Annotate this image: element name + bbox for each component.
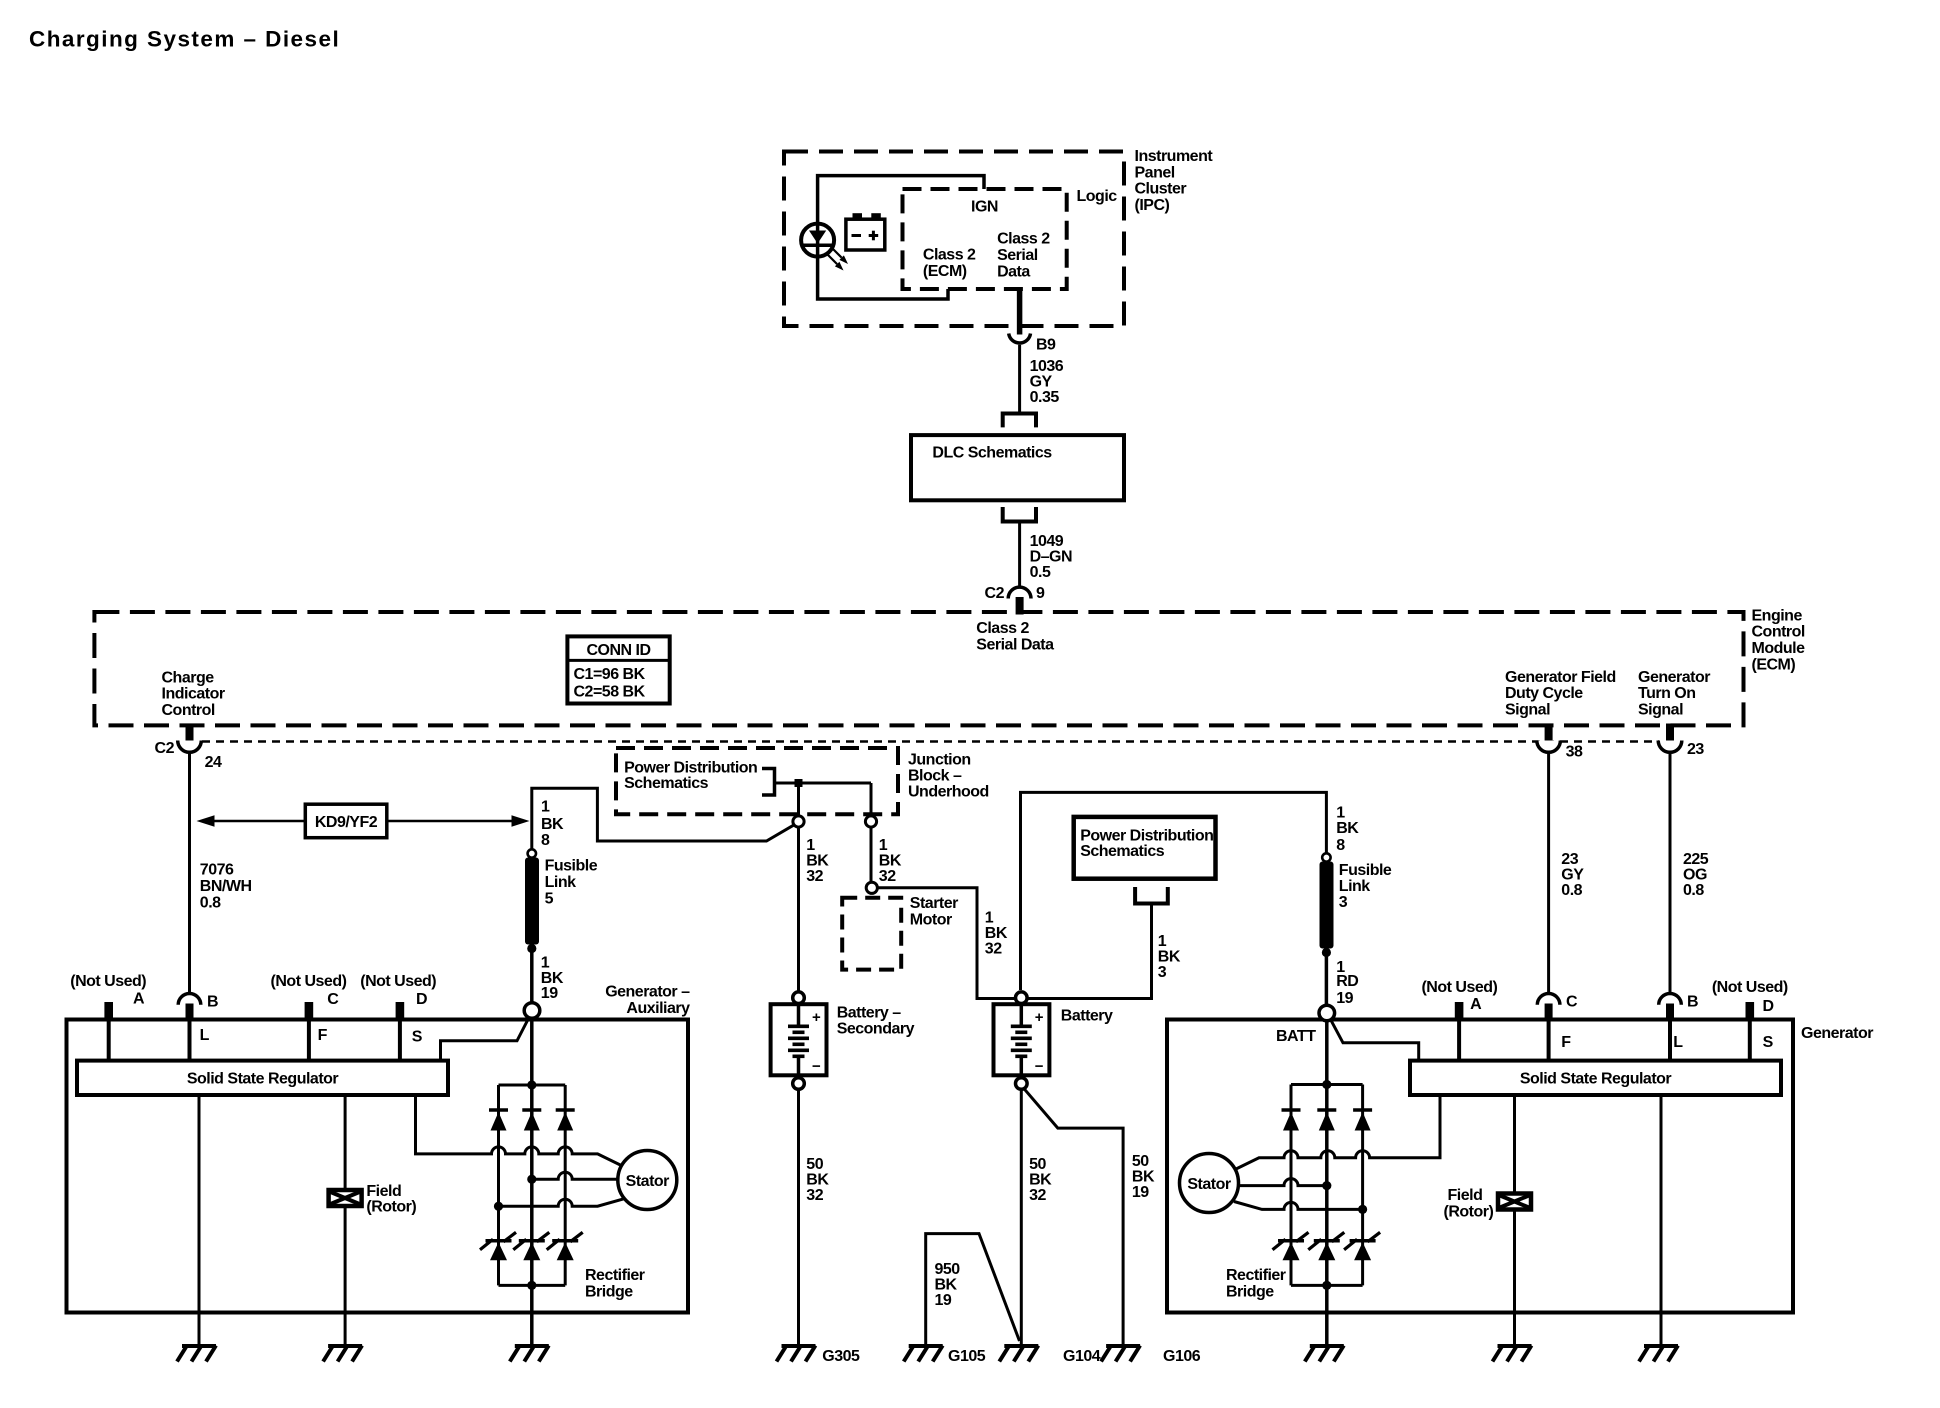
svg-text:F: F [318, 1027, 328, 1044]
connector B9 [1009, 334, 1056, 354]
svg-text:+: + [1035, 1009, 1044, 1026]
svg-text:19: 19 [1132, 1184, 1149, 1201]
svg-text:IGN: IGN [971, 199, 998, 216]
svg-text:Bridge: Bridge [1226, 1283, 1274, 1300]
svg-text:DLC Schematics: DLC Schematics [932, 445, 1052, 462]
pin C (not used) left gen [271, 973, 347, 1019]
svg-text:Logic: Logic [1077, 188, 1118, 205]
svg-text:G105: G105 [948, 1348, 986, 1365]
wire regulator L to ground [198, 1095, 201, 1346]
svg-text:3: 3 [1339, 894, 1348, 911]
IPC logic block [903, 188, 1118, 289]
svg-text:225: 225 [1683, 851, 1709, 868]
svg-text:Generator: Generator [1801, 1025, 1873, 1042]
wire regulator F to ground [1513, 1095, 1516, 1346]
fusible link 3 [1320, 853, 1392, 957]
svg-text:CONN ID: CONN ID [586, 642, 650, 659]
rectifier right column [564, 1085, 567, 1285]
svg-text:G104: G104 [1063, 1348, 1101, 1365]
svg-text:Underhood: Underhood [908, 784, 989, 801]
pin D (not used) left gen [360, 973, 436, 1019]
svg-text:Signal: Signal [1505, 702, 1550, 719]
svg-text:L: L [200, 1027, 210, 1044]
stator phase wire to regulator [416, 1095, 621, 1165]
wire terminal to regulator S [441, 1018, 530, 1061]
svg-text:BK: BK [985, 925, 1008, 942]
off-page bracket power distribution [1135, 887, 1168, 904]
svg-text:A: A [1470, 996, 1482, 1013]
svg-text:BK: BK [806, 852, 829, 869]
rectifier middle column left gen [530, 1018, 534, 1346]
svg-text:19: 19 [935, 1292, 952, 1309]
wire 50 BK 19 (battery to G106) [1024, 1088, 1155, 1344]
svg-text:BK: BK [879, 852, 902, 869]
pin A (not used) left gen [70, 973, 146, 1019]
svg-text:C2: C2 [155, 740, 175, 757]
svg-text:C2: C2 [985, 585, 1005, 602]
rectifier right column right gen [1361, 1085, 1364, 1286]
avalanche diode 6 [1344, 1232, 1380, 1260]
svg-text:1049: 1049 [1030, 533, 1064, 550]
ECM connector face dotted line [202, 740, 1659, 743]
pin wires to regulator left gen [107, 1020, 111, 1061]
svg-text:Charging System – Diesel: Charging System – Diesel [29, 27, 340, 52]
svg-text:OG: OG [1683, 866, 1707, 883]
svg-text:Auxiliary: Auxiliary [626, 1000, 690, 1017]
svg-text:(Rotor): (Rotor) [366, 1199, 416, 1216]
svg-text:1: 1 [806, 837, 815, 854]
connector C2 pin 24 [155, 724, 222, 771]
pin wires to regulator right gen [1457, 1020, 1461, 1061]
svg-text:C: C [1566, 994, 1578, 1011]
svg-text:A: A [133, 990, 145, 1007]
wire BATT to regulator [1331, 1020, 1419, 1061]
svg-text:Panel: Panel [1135, 164, 1175, 181]
rectifier left column [497, 1085, 500, 1285]
svg-text:BK: BK [1029, 1171, 1052, 1188]
svg-text:23: 23 [1561, 851, 1578, 868]
ground right gen F [1493, 1346, 1532, 1362]
svg-text:GY: GY [1561, 866, 1584, 883]
wire 950 BK 19 (G105 strap) [926, 1234, 1020, 1344]
svg-text:KD9/YF2: KD9/YF2 [315, 814, 378, 831]
connector C2 pin 38 [1537, 724, 1583, 761]
stator phase wire middle right [1238, 1179, 1327, 1186]
svg-text:Generator Field: Generator Field [1505, 669, 1616, 686]
rectifier top rail right gen [1291, 1083, 1363, 1086]
svg-text:BK: BK [541, 816, 564, 833]
junction dot [1322, 1181, 1331, 1190]
svg-text:Class 2: Class 2 [997, 231, 1050, 248]
generator auxiliary box [67, 984, 691, 1313]
svg-text:Cluster: Cluster [1135, 181, 1187, 198]
svg-text:Control: Control [162, 702, 215, 719]
junction dot [1358, 1205, 1367, 1214]
svg-text:D: D [416, 991, 427, 1008]
stator phase wire middle [532, 1172, 618, 1179]
battery - secondary [771, 1004, 915, 1075]
svg-text:Rectifier: Rectifier [1226, 1267, 1286, 1284]
charge indicator lamp (LED) [801, 224, 848, 271]
svg-text:(IPC): (IPC) [1135, 197, 1170, 214]
svg-text:Generator –: Generator – [605, 984, 690, 1001]
svg-text:(ECM): (ECM) [1752, 656, 1796, 673]
wire 1 BK 8 [532, 788, 795, 849]
off-page connector bracket top [1003, 414, 1036, 428]
wire 1 BK 19 [532, 949, 564, 1004]
ground left gen F [323, 1346, 362, 1362]
svg-text:Motor: Motor [910, 911, 952, 928]
node Generator Turn On Signal [1638, 669, 1710, 719]
wire 23 GY 0.8 [1549, 752, 1585, 992]
junction dot [1322, 1281, 1331, 1290]
svg-text:C1=96 BK: C1=96 BK [574, 666, 646, 683]
wire to battery secondary terminal [797, 783, 800, 816]
ground G104 [999, 1346, 1100, 1366]
svg-text:19: 19 [541, 985, 558, 1002]
svg-text:(Not Used): (Not Used) [1421, 979, 1497, 996]
svg-text:G106: G106 [1163, 1348, 1201, 1365]
svg-text:Data: Data [997, 263, 1030, 280]
wire 1 BK 8 (right) labels [1336, 804, 1359, 854]
pin A (not used) right gen [1421, 979, 1497, 1019]
svg-text:1: 1 [879, 837, 888, 854]
svg-text:Fusible: Fusible [1339, 862, 1392, 879]
svg-text:(Not Used): (Not Used) [1712, 979, 1788, 996]
svg-text:D: D [1762, 998, 1773, 1015]
ground G106 [1101, 1346, 1201, 1366]
junction dot [795, 779, 803, 787]
rectifier top rail left gen [499, 1084, 566, 1087]
svg-text:0.5: 0.5 [1030, 564, 1051, 581]
field rotor winding right [1444, 1187, 1532, 1220]
svg-text:32: 32 [806, 868, 823, 885]
svg-text:Link: Link [1339, 878, 1370, 895]
CONN ID table [567, 636, 669, 703]
off-page bracket junction block [762, 769, 775, 796]
avalanche diode 3 [547, 1232, 583, 1260]
ground right gen bridge [1305, 1346, 1344, 1362]
rectifier bottom rail right gen [1291, 1284, 1363, 1287]
battery [994, 1004, 1114, 1075]
wire regulator F to ground [344, 1095, 347, 1346]
svg-text:0.8: 0.8 [200, 895, 221, 912]
svg-text:Starter: Starter [910, 895, 958, 912]
svg-text:Serial Data: Serial Data [976, 637, 1054, 654]
svg-text:Indicator: Indicator [162, 686, 225, 703]
starter motor terminal ring [866, 882, 877, 893]
junction dot [527, 1281, 536, 1290]
diode 2 [522, 1110, 541, 1131]
wire class2 serial data stub [1017, 289, 1023, 335]
node Class 2 Serial Data [976, 620, 1054, 653]
svg-text:Engine: Engine [1752, 607, 1803, 624]
ground left gen bridge [510, 1346, 549, 1362]
svg-text:32: 32 [1029, 1187, 1046, 1204]
svg-text:3: 3 [1158, 964, 1167, 981]
BATT terminal ring [1319, 1005, 1335, 1021]
svg-text:24: 24 [205, 754, 222, 771]
svg-text:38: 38 [1566, 743, 1583, 760]
svg-text:−: − [1035, 1058, 1044, 1075]
wire 1 BK 3 [1028, 904, 1181, 999]
rectifier left column right gen [1290, 1085, 1293, 1286]
svg-text:0.8: 0.8 [1561, 882, 1582, 899]
svg-text:Power Distribution: Power Distribution [1080, 827, 1213, 844]
wire 1049 D-GN 0.5 [1020, 522, 1072, 587]
svg-text:BATT: BATT [1276, 1028, 1316, 1045]
svg-text:Junction: Junction [908, 751, 971, 768]
diode 5 [1317, 1110, 1336, 1131]
svg-text:Generator: Generator [1638, 669, 1710, 686]
svg-text:Charge: Charge [162, 669, 215, 686]
battery symbol (IPC) [846, 213, 885, 250]
svg-text:0.35: 0.35 [1030, 389, 1060, 406]
svg-text:Schematics: Schematics [1080, 843, 1165, 860]
svg-text:Stator: Stator [626, 1173, 670, 1190]
svg-text:C: C [327, 991, 339, 1008]
stator winding right gen [1180, 1154, 1239, 1213]
junction dot [1322, 1080, 1331, 1089]
wire to starter feed [870, 783, 873, 816]
svg-text:BN/WH: BN/WH [200, 878, 252, 895]
svg-text:C2=58 BK: C2=58 BK [574, 684, 646, 701]
svg-text:0.8: 0.8 [1683, 882, 1704, 899]
svg-text:50: 50 [806, 1156, 823, 1173]
wire lamp to logic [818, 254, 948, 299]
battery terminal ring bottom [1016, 1078, 1028, 1090]
svg-text:32: 32 [879, 868, 896, 885]
svg-text:(Not Used): (Not Used) [271, 973, 347, 990]
wire 1 RD 19 [1326, 953, 1358, 1007]
battery secondary terminal ring bottom [793, 1078, 805, 1090]
rectifier bottom rail left gen [499, 1284, 566, 1287]
svg-text:Class 2: Class 2 [976, 620, 1029, 637]
rectifier bridge label right [1226, 1267, 1286, 1300]
diode 6 [1353, 1110, 1372, 1131]
power distribution schematics box [1074, 817, 1216, 879]
svg-text:Serial: Serial [997, 247, 1038, 264]
svg-text:1: 1 [985, 910, 994, 927]
wire 1 BK 32 (starter to battery) [877, 888, 1014, 999]
svg-text:32: 32 [806, 1187, 823, 1204]
svg-text:+: + [812, 1009, 821, 1026]
svg-text:Rectifier: Rectifier [585, 1267, 645, 1284]
connector pin B right gen [1659, 993, 1698, 1019]
svg-text:S: S [412, 1028, 423, 1045]
wire 225 OG 0.8 [1670, 752, 1709, 992]
avalanche diode 4 [1273, 1232, 1309, 1260]
DLC Schematics box [911, 435, 1124, 500]
solid state regulator right [1410, 1061, 1781, 1095]
battery terminal ring top (junction) [1016, 992, 1028, 1004]
svg-text:BK: BK [1132, 1168, 1155, 1185]
svg-text:Solid State Regulator: Solid State Regulator [187, 1071, 339, 1088]
svg-text:Stator: Stator [1187, 1176, 1231, 1193]
svg-text:Signal: Signal [1638, 702, 1683, 719]
node Generator Field Duty Cycle Signal [1505, 669, 1616, 719]
avalanche diode 5 [1308, 1232, 1344, 1260]
wire 1036 GY 0.35 [1020, 345, 1064, 414]
svg-text:−: − [812, 1058, 821, 1075]
svg-text:7076: 7076 [200, 861, 234, 878]
svg-text:Secondary: Secondary [837, 1021, 915, 1038]
starter motor box [842, 895, 958, 970]
svg-text:BK: BK [806, 1171, 829, 1188]
svg-text:B: B [207, 994, 218, 1011]
stator phase wire to regulator right [1236, 1095, 1440, 1169]
off-page connector bracket bottom [1003, 507, 1036, 522]
svg-text:8: 8 [541, 832, 550, 849]
svg-text:1: 1 [541, 799, 550, 816]
field rotor winding left [329, 1183, 417, 1215]
wire 50 BK 32 (battery to G104) [1021, 1089, 1052, 1344]
junction dot [527, 1175, 536, 1184]
node Charge Indicator Control [162, 669, 225, 719]
wire 50 BK 32 (battery secondary to G305) [799, 1089, 830, 1344]
junction dot [527, 1080, 536, 1089]
generator box right [1167, 1020, 1873, 1313]
svg-text:50: 50 [1132, 1153, 1149, 1170]
svg-text:(ECM): (ECM) [923, 263, 967, 280]
instrument panel cluster IPC box [784, 148, 1213, 326]
svg-text:Battery: Battery [1061, 1007, 1113, 1024]
connector pin C right gen [1537, 993, 1578, 1019]
battery secondary terminal ring top [793, 992, 805, 1004]
diode 1 [489, 1110, 508, 1131]
svg-text:950: 950 [935, 1261, 961, 1278]
junction dot [494, 1202, 503, 1211]
svg-text:Schematics: Schematics [624, 775, 709, 792]
svg-text:D–GN: D–GN [1030, 548, 1072, 565]
ground G305 [777, 1346, 861, 1366]
svg-text:32: 32 [985, 941, 1002, 958]
svg-text:BK: BK [935, 1277, 958, 1294]
ground left gen L [177, 1346, 216, 1362]
stator phase wire bottom right [1234, 1202, 1363, 1210]
svg-text:Fusible: Fusible [545, 857, 598, 874]
svg-text:Field: Field [1448, 1187, 1483, 1204]
pin D (not used) right gen [1712, 979, 1788, 1019]
svg-text:Battery –: Battery – [837, 1004, 902, 1021]
svg-text:Solid State Regulator: Solid State Regulator [1520, 1071, 1672, 1088]
wire 7076 BN/WH 0.8 [190, 752, 252, 992]
svg-text:1036: 1036 [1030, 358, 1064, 375]
svg-text:BK: BK [1158, 948, 1181, 965]
svg-text:Control: Control [1752, 624, 1805, 641]
svg-text:F: F [1561, 1034, 1571, 1051]
engine control module ECM box [94, 607, 1805, 725]
svg-text:Instrument: Instrument [1135, 148, 1214, 165]
connector C2 pin 9 [985, 585, 1045, 614]
wire 1 BK 32 (to battery secondary) [799, 827, 830, 991]
wire regulator L to ground [1660, 1095, 1663, 1346]
svg-text:19: 19 [1336, 990, 1353, 1007]
svg-text:BK: BK [1336, 820, 1359, 837]
fusible link 5 [525, 849, 598, 953]
svg-text:(Not Used): (Not Used) [360, 973, 436, 990]
terminal ring 1 BK 19 [524, 1003, 540, 1019]
svg-text:1: 1 [1158, 933, 1167, 950]
svg-text:1: 1 [1336, 804, 1345, 821]
svg-text:Link: Link [545, 874, 576, 891]
svg-text:8: 8 [1336, 837, 1345, 854]
svg-text:B9: B9 [1036, 336, 1056, 353]
wire bracket to feed bus [775, 782, 872, 785]
svg-text:GY: GY [1030, 374, 1053, 391]
svg-text:Module: Module [1752, 640, 1806, 657]
svg-text:S: S [1763, 1034, 1774, 1051]
svg-text:5: 5 [545, 891, 554, 908]
svg-text:RD: RD [1336, 973, 1358, 990]
avalanche diode 1 [480, 1232, 516, 1260]
svg-text:23: 23 [1687, 741, 1704, 758]
diode 3 [556, 1110, 575, 1131]
svg-text:Block –: Block – [908, 767, 962, 784]
ground G105 [904, 1346, 986, 1366]
solid state regulator left [77, 1061, 448, 1095]
wire 1 BK 32 (to starter) [871, 827, 902, 885]
connector pin B left gen [178, 994, 218, 1020]
terminal ring 1 [793, 816, 804, 827]
svg-text:Class 2: Class 2 [923, 247, 976, 264]
svg-text:(Not Used): (Not Used) [70, 973, 146, 990]
diode 4 [1282, 1110, 1301, 1131]
junction block underhood box [616, 748, 989, 814]
stator phase wire bottom [499, 1198, 626, 1206]
svg-text:Duty Cycle: Duty Cycle [1505, 685, 1583, 702]
wire IGN feed [818, 176, 984, 226]
ground right gen L [1639, 1346, 1678, 1362]
harness code KD9/YF2 double arrow [197, 804, 530, 838]
svg-text:L: L [1673, 1034, 1683, 1051]
stator winding left gen [618, 1151, 677, 1210]
svg-text:Turn On: Turn On [1638, 685, 1696, 702]
svg-text:Bridge: Bridge [585, 1283, 633, 1300]
svg-text:9: 9 [1036, 585, 1045, 602]
svg-text:B: B [1687, 994, 1698, 1011]
rectifier bridge label left [585, 1267, 645, 1300]
svg-text:G305: G305 [822, 1348, 860, 1365]
connector C2 pin 23 [1658, 724, 1704, 759]
terminal ring 2 [865, 816, 876, 827]
wire battery to fusible link 3 feed [1021, 792, 1327, 990]
svg-text:(Rotor): (Rotor) [1444, 1203, 1494, 1220]
svg-text:50: 50 [1029, 1156, 1046, 1173]
rectifier middle column right gen [1325, 1021, 1329, 1347]
avalanche diode 2 [513, 1232, 549, 1260]
